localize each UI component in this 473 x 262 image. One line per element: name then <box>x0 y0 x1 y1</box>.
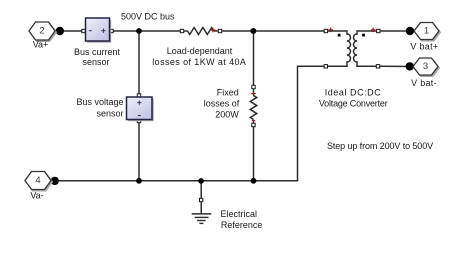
svg-text:Voltage Converter: Voltage Converter <box>319 99 388 109</box>
wire: transformer primary bottom return <box>298 66 326 181</box>
pin + top-right <box>371 28 376 32</box>
pin + top-left <box>324 29 327 32</box>
secondary winding <box>354 31 377 66</box>
wire: ground stem <box>200 181 202 198</box>
junction: node at port 1 <box>406 27 414 35</box>
pin - bottom-right <box>376 65 379 68</box>
port 1 hexagon <box>414 23 440 41</box>
polarity dot secondary <box>362 34 365 37</box>
svg-text:1: 1 <box>424 25 429 36</box>
junction: top rail / voltage sensor tap <box>136 28 142 34</box>
svg-text:Load-dependant: Load-dependant <box>167 46 233 56</box>
svg-text:3: 3 <box>423 61 428 72</box>
svg-text:Va-: Va- <box>30 191 43 201</box>
junction: bottom rail / ground tap <box>198 178 204 184</box>
svg-text:sensor: sensor <box>82 57 109 67</box>
wire top rail: resistor R1 to transformer primary top <box>221 30 325 32</box>
wire bottom rail <box>51 180 298 182</box>
wire top rail: bus current sensor to resistor R1 <box>111 30 181 32</box>
svg-text:500V DC bus: 500V DC bus <box>121 12 175 22</box>
polarity dot primary <box>338 34 341 37</box>
port 2 hexagon <box>29 22 56 41</box>
svg-text:200W: 200W <box>215 110 239 120</box>
svg-text:4: 4 <box>35 175 40 186</box>
transformer T1 (Ideal DC:DC Voltage Converter) <box>324 28 380 68</box>
junction: node at port 3 <box>406 62 414 70</box>
resistor R2 (Fixed losses) <box>250 85 256 126</box>
current sensor U1 (Bus current sensor) <box>82 18 113 43</box>
junction: top rail / resistor R2 tap <box>250 28 256 34</box>
wire: resistor R2 to bottom rail <box>253 125 255 181</box>
svg-text:Electrical: Electrical <box>221 209 258 219</box>
junction: node at port 2 <box>56 27 64 35</box>
port 4 hexagon <box>25 172 52 191</box>
primary winding <box>328 31 351 66</box>
svg-text:V bat+: V bat+ <box>410 41 438 51</box>
pin - bottom-left <box>324 65 327 68</box>
svg-text:Bus current: Bus current <box>74 47 121 57</box>
svg-text:sensor: sensor <box>96 108 123 118</box>
svg-text:Va+: Va+ <box>33 40 49 50</box>
wire: transformer secondary bottom to port 3 <box>379 65 413 67</box>
svg-text:Step up from 200V to 500V: Step up from 200V to 500V <box>327 141 433 151</box>
svg-text:losses of 1KW at 40A: losses of 1KW at 40A <box>152 57 246 67</box>
junction: bottom rail / voltage sensor <box>136 178 142 184</box>
svg-text:Bus voltage: Bus voltage <box>76 97 123 107</box>
svg-text:2: 2 <box>39 25 44 36</box>
resistor R1 (Load-dependant losses) <box>180 28 221 35</box>
port 3 hexagon <box>413 58 439 76</box>
wire top rail: hexagon 2 to bus current sensor <box>55 30 82 32</box>
svg-text:losses of: losses of <box>204 99 240 109</box>
wire: vertical drop to bus voltage sensor <box>138 31 140 96</box>
wire: transformer secondary top to port 1 <box>379 30 414 32</box>
ground (Electrical Reference) <box>192 198 212 223</box>
wire: bus voltage sensor to bottom rail <box>138 121 140 181</box>
svg-text:V bat-: V bat- <box>411 78 437 88</box>
voltage sensor U2 (Bus voltage sensor) <box>127 94 154 123</box>
wire: vertical drop to resistor R2 <box>253 31 255 87</box>
junction: bottom rail / resistor R2 <box>251 178 257 184</box>
svg-text:Fixed: Fixed <box>217 88 239 98</box>
svg-text:Ideal DC:DC: Ideal DC:DC <box>325 87 382 97</box>
junction: node at port 4 <box>51 177 59 185</box>
svg-text:Reference: Reference <box>221 220 263 230</box>
